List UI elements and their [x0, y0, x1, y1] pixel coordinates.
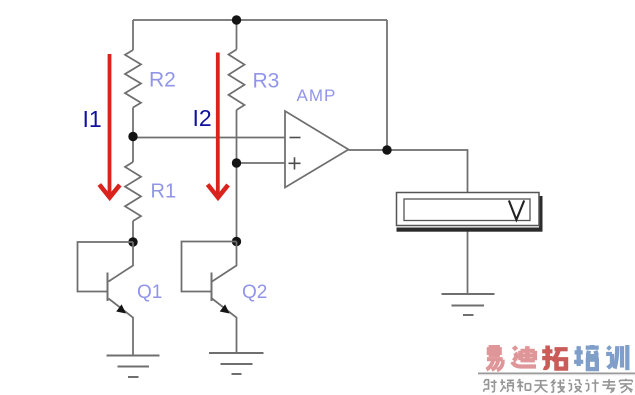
- svg-text:R2: R2: [149, 69, 176, 92]
- svg-text:AMP: AMP: [297, 86, 337, 105]
- svg-text:R3: R3: [253, 70, 280, 93]
- svg-text:I2: I2: [193, 105, 212, 131]
- svg-text:R1: R1: [151, 181, 177, 203]
- svg-text:I1: I1: [83, 106, 102, 132]
- svg-text:Q1: Q1: [137, 282, 162, 303]
- svg-text:Q2: Q2: [242, 282, 267, 303]
